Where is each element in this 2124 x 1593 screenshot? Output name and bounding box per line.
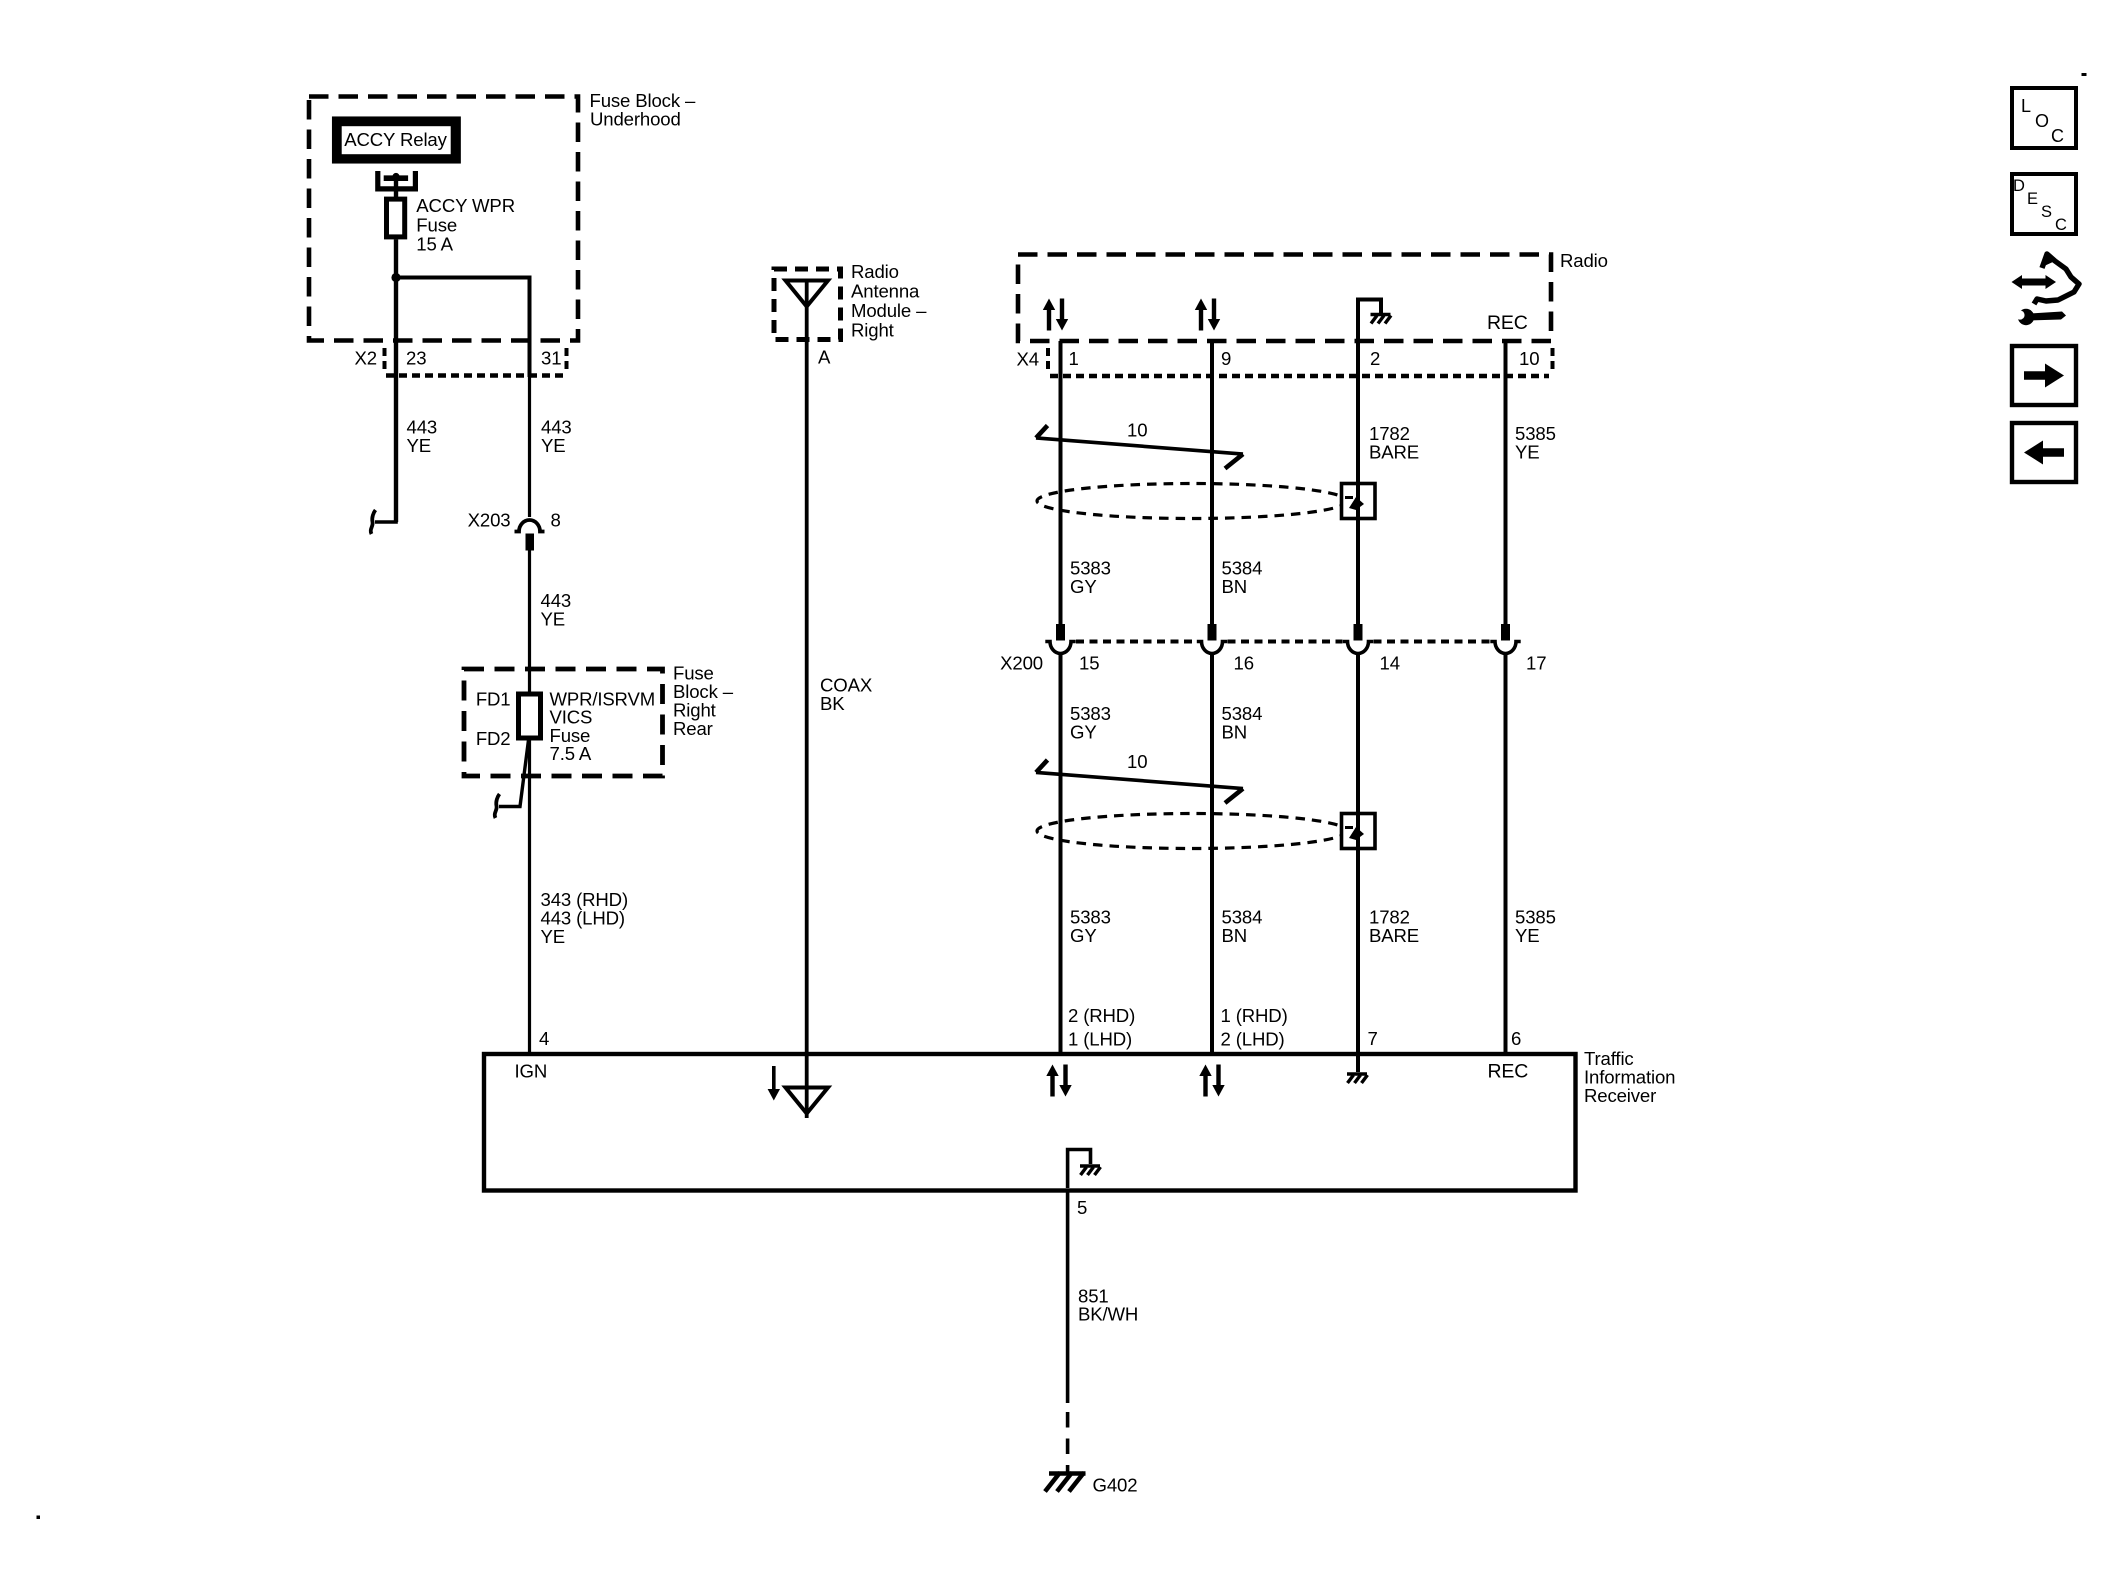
svg-text:14: 14: [1380, 653, 1400, 674]
wire labels 1782 BARE upper: [1369, 423, 1419, 463]
svg-text:Fuse: Fuse: [416, 214, 457, 235]
svg-text:BN: BN: [1222, 722, 1248, 743]
updown arrows receiver left pair: [1046, 1065, 1071, 1097]
junction node: [391, 273, 400, 282]
svg-text:BARE: BARE: [1369, 442, 1419, 463]
svg-text:ACCY Relay: ACCY Relay: [344, 129, 447, 150]
wire 443 YE X203 to fuse block right rear: [530, 551, 572, 695]
label Traffic Information Receiver: [1584, 1048, 1675, 1106]
svg-text:Right: Right: [851, 320, 895, 341]
twisted pair marker lower: [1036, 751, 1243, 803]
svg-text:15 A: 15 A: [416, 234, 453, 255]
svg-text:X200: X200: [1000, 653, 1043, 674]
svg-text:YE: YE: [541, 435, 566, 456]
svg-text:GY: GY: [1070, 925, 1097, 946]
branch with hook below right rear fuse: [495, 740, 529, 818]
svg-text:FD2: FD2: [476, 728, 511, 749]
svg-text:O: O: [2035, 111, 2049, 131]
radio dashed box: [1018, 255, 1551, 342]
svg-text:5: 5: [1077, 1197, 1087, 1218]
icon LOC box: [2012, 88, 2076, 148]
fuse block right rear dashed box: [464, 669, 663, 776]
twisted pair marker upper: [1036, 420, 1243, 469]
radio antenna module dashed box: [774, 269, 841, 340]
radio wire pin1 upper segment: [1059, 341, 1063, 626]
svg-text:X2: X2: [355, 348, 377, 369]
wire 443 YE from X2-23 down with hook: [371, 417, 437, 535]
svg-text:Rear: Rear: [673, 718, 713, 739]
svg-text:A: A: [818, 347, 831, 368]
wire labels 1782 BARE bottom: [1369, 907, 1419, 947]
svg-text:Radio: Radio: [1560, 250, 1608, 271]
svg-text:S: S: [2041, 203, 2052, 221]
wire relay to fuse: [394, 178, 398, 199]
stray mark top right: [2082, 73, 2087, 76]
X2 connector row: [355, 348, 568, 376]
svg-text:X203: X203: [468, 510, 511, 531]
svg-text:YE: YE: [1515, 925, 1540, 946]
fuse WPR/ISRVM VICS 7.5A: [519, 689, 656, 765]
svg-text:IGN: IGN: [515, 1061, 548, 1082]
svg-text:YE: YE: [541, 926, 566, 947]
icon forward arrow box: [2012, 346, 2076, 405]
svg-text:9: 9: [1221, 348, 1231, 369]
pin 5 internal ground stub: [1068, 1150, 1101, 1189]
svg-text:FD1: FD1: [476, 689, 511, 710]
wire labels 5384 BN bottom: [1222, 907, 1263, 947]
svg-text:8: 8: [551, 510, 561, 531]
wire labels 5383 GY below X200: [1070, 703, 1111, 743]
stray mark bottom left: [37, 1516, 41, 1520]
receiver pin labels above box: [539, 1005, 1521, 1050]
svg-text:2: 2: [1370, 348, 1380, 369]
FD1 / FD2 labels: [476, 689, 511, 750]
svg-text:4: 4: [539, 1028, 549, 1049]
svg-text:YE: YE: [541, 609, 566, 630]
antenna symbol in module: [786, 281, 829, 307]
svg-text:31: 31: [541, 348, 561, 369]
svg-text:C: C: [2055, 216, 2067, 234]
svg-text:Receiver: Receiver: [1584, 1085, 1656, 1106]
svg-text:BN: BN: [1222, 925, 1248, 946]
wire labels 5385 YE upper: [1515, 423, 1556, 463]
svg-text:Radio: Radio: [851, 261, 899, 282]
icon back arrow box: [2012, 423, 2076, 482]
svg-text:BARE: BARE: [1369, 925, 1419, 946]
X4 connector row: [1017, 348, 1553, 376]
ground stub in radio on pin 2: [1358, 300, 1391, 344]
svg-text:Antenna: Antenna: [851, 281, 920, 302]
relay output terminal (cup with T): [378, 171, 416, 189]
radio wire pin9 upper segment: [1210, 341, 1214, 626]
ground stub below pin 7: [1347, 1054, 1368, 1083]
svg-text:7.5 A: 7.5 A: [550, 743, 592, 764]
X200 inline connector row: [1000, 642, 1546, 674]
down arrow at coax input: [768, 1066, 780, 1101]
svg-text:15: 15: [1079, 653, 1099, 674]
drain wire lower segment: [1356, 655, 1360, 1054]
shield ellipse lower with drain square: [1037, 814, 1375, 849]
svg-text:REC: REC: [1488, 1061, 1529, 1083]
updown arrows radio pin 9: [1195, 299, 1220, 331]
svg-text:2 (RHD): 2 (RHD): [1068, 1005, 1135, 1026]
X200 pin 15 terminals: [1045, 624, 1075, 654]
svg-text:D: D: [2013, 177, 2025, 195]
svg-text:Module –: Module –: [851, 300, 927, 321]
svg-text:10: 10: [1519, 348, 1539, 369]
svg-text:7: 7: [1368, 1028, 1378, 1049]
radio wire pin9 lower segment: [1210, 655, 1214, 1054]
antenna symbol in receiver: [786, 1088, 829, 1114]
label Radio Antenna Module - Right: [851, 261, 927, 341]
X200 pin 16 terminals: [1197, 624, 1227, 654]
svg-text:17: 17: [1526, 653, 1546, 674]
svg-text:2 (LHD): 2 (LHD): [1221, 1029, 1285, 1050]
ground G402: [1045, 1473, 1137, 1496]
X200 pin 14 terminals: [1343, 624, 1373, 654]
svg-text:REC: REC: [1487, 312, 1528, 334]
ACCY Relay box: [336, 121, 456, 160]
traffic information receiver box: [484, 1054, 1576, 1191]
updown arrows receiver right pair: [1199, 1065, 1224, 1097]
label Fuse Block - Underhood: [590, 90, 696, 130]
svg-text:16: 16: [1234, 653, 1254, 674]
drain wire pin2 upper segment: [1356, 343, 1360, 626]
svg-text:6: 6: [1511, 1028, 1521, 1049]
svg-text:GY: GY: [1070, 722, 1097, 743]
svg-text:1 (RHD): 1 (RHD): [1221, 1005, 1288, 1026]
fuse ACCY WPR 15A: [387, 195, 515, 255]
wire labels 5384 BN below X200: [1222, 703, 1263, 743]
svg-text:X4: X4: [1017, 349, 1039, 370]
wire fuse down to junction and X2 pin 23: [394, 239, 398, 522]
wire pin10 upper segment: [1504, 341, 1508, 626]
svg-text:1: 1: [1069, 348, 1079, 369]
wire pin10 lower segment: [1504, 655, 1508, 1054]
wire labels 5385 YE bottom: [1515, 907, 1556, 947]
shield ellipse upper with drain square: [1037, 484, 1375, 519]
X200 pin 17 terminals: [1490, 624, 1520, 654]
inline connector X203 pin 8: [468, 510, 561, 551]
wire 443 YE from X2-31 down to X203: [530, 376, 572, 518]
svg-text:Underhood: Underhood: [590, 109, 681, 130]
wire 343(RHD)/443(LHD) YE down to receiver pin 4: [530, 738, 629, 1054]
svg-text:YE: YE: [1515, 442, 1540, 463]
wire labels 5384 BN mid: [1222, 558, 1263, 598]
wire labels 5383 GY bottom: [1070, 907, 1111, 947]
coax wire antenna to receiver: [807, 281, 873, 1090]
svg-text:10: 10: [1127, 751, 1147, 772]
wire 851 BK/WH: [1068, 1191, 1139, 1473]
svg-text:G402: G402: [1093, 1475, 1138, 1496]
icon DESC box: [2012, 174, 2076, 234]
wire branch junction to pin 31: [396, 278, 530, 378]
svg-text:1 (LHD): 1 (LHD): [1068, 1029, 1132, 1050]
svg-text:BN: BN: [1222, 576, 1248, 597]
svg-text:E: E: [2027, 190, 2038, 208]
svg-text:23: 23: [406, 348, 426, 369]
svg-text:ACCY WPR: ACCY WPR: [416, 195, 515, 216]
svg-text:YE: YE: [407, 435, 432, 456]
svg-text:BK/WH: BK/WH: [1078, 1304, 1138, 1325]
icon jump squiggle with double arrow and wrench: [2012, 252, 2080, 325]
svg-text:10: 10: [1127, 420, 1147, 441]
svg-text:BK: BK: [820, 693, 845, 714]
wire labels 5383 GY mid: [1070, 558, 1111, 598]
svg-text:GY: GY: [1070, 576, 1097, 597]
svg-text:L: L: [2021, 96, 2031, 116]
svg-text:C: C: [2051, 126, 2064, 146]
fuse block underhood dashed box: [309, 97, 578, 341]
label Fuse Block - Right Rear: [673, 663, 734, 740]
updown arrows radio pin 1: [1043, 299, 1068, 331]
radio wire pin1 lower segment: [1059, 655, 1063, 1054]
